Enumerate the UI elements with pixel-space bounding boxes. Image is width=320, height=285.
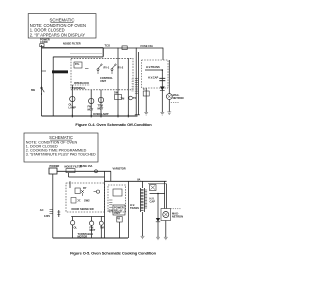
- svg-text:MOTOR: MOTOR: [78, 235, 88, 239]
- svg-text:VA: VA: [137, 177, 141, 181]
- svg-text:P.S.: P.S.: [75, 62, 80, 66]
- svg-text:SW2: SW2: [84, 199, 90, 203]
- svg-text:UNIT: UNIT: [100, 79, 106, 83]
- svg-text:TM: TM: [121, 97, 125, 101]
- svg-text:OL: OL: [74, 225, 78, 229]
- svg-text:CORD: CORD: [40, 40, 48, 44]
- svg-text:2. “0” APPEARS ON DISPLAY: 2. “0” APPEARS ON DISPLAY: [30, 32, 85, 37]
- svg-text:TCO: TCO: [105, 43, 110, 47]
- svg-text:FUSE 15A: FUSE 15A: [141, 44, 154, 48]
- svg-text:FUSE 15A: FUSE 15A: [80, 164, 93, 168]
- svg-text:MOT: MOT: [90, 228, 96, 232]
- svg-text:NOISE FILTER: NOISE FILTER: [63, 41, 81, 45]
- svg-text:CAP: CAP: [150, 200, 156, 204]
- svg-text:SCHEMATIC: SCHEMATIC: [49, 135, 73, 140]
- svg-text:H.V.CAP: H.V.CAP: [148, 75, 159, 79]
- svg-text:DM: DM: [114, 91, 118, 95]
- svg-text:SCHEMATIC: SCHEMATIC: [50, 17, 75, 22]
- svg-text:SW: SW: [31, 88, 36, 92]
- svg-text:INTERLOCK: INTERLOCK: [74, 81, 89, 85]
- svg-text:MOT: MOT: [88, 107, 94, 111]
- svg-text:TERMINAL: TERMINAL: [72, 86, 86, 90]
- svg-text:3. “START/MINUTE PLUS” PAD TOU: 3. “START/MINUTE PLUS” PAD TOUCHED: [26, 153, 96, 157]
- svg-text:RY-2: RY-2: [118, 66, 124, 70]
- svg-text:PR: PR: [117, 217, 121, 221]
- svg-text:SW: SW: [109, 209, 114, 213]
- svg-text:OVEN LAMP: OVEN LAMP: [93, 112, 109, 116]
- svg-text:C: C: [143, 87, 145, 91]
- svg-text:AC: AC: [40, 208, 44, 212]
- svg-text:VARISTOR: VARISTOR: [113, 167, 126, 171]
- svg-text:POWER: POWER: [50, 164, 60, 168]
- svg-text:TM: TM: [100, 226, 104, 230]
- svg-text:NETRON: NETRON: [173, 96, 184, 100]
- svg-text:120V: 120V: [44, 214, 50, 218]
- svg-text:TRANS: TRANS: [130, 206, 139, 210]
- svg-text:Figure O-5. Oven Schematic Coo: Figure O-5. Oven Schematic Cooking Condi…: [70, 251, 156, 256]
- svg-text:UNIT: UNIT: [114, 211, 120, 215]
- svg-text:MOT: MOT: [98, 106, 104, 110]
- svg-text:RY: RY: [83, 186, 87, 190]
- svg-text:Figure O-4. Oven Schematic Off: Figure O-4. Oven Schematic Off-Condition: [75, 122, 152, 127]
- svg-text:RY-1: RY-1: [104, 66, 110, 70]
- svg-text:TD: TD: [133, 96, 137, 100]
- svg-text:NETRON: NETRON: [172, 215, 183, 219]
- svg-text:DOOR SENSE SW: DOOR SENSE SW: [72, 207, 95, 211]
- svg-text:LAMP: LAMP: [69, 105, 77, 109]
- svg-text:H.V.TRANS: H.V.TRANS: [146, 65, 160, 69]
